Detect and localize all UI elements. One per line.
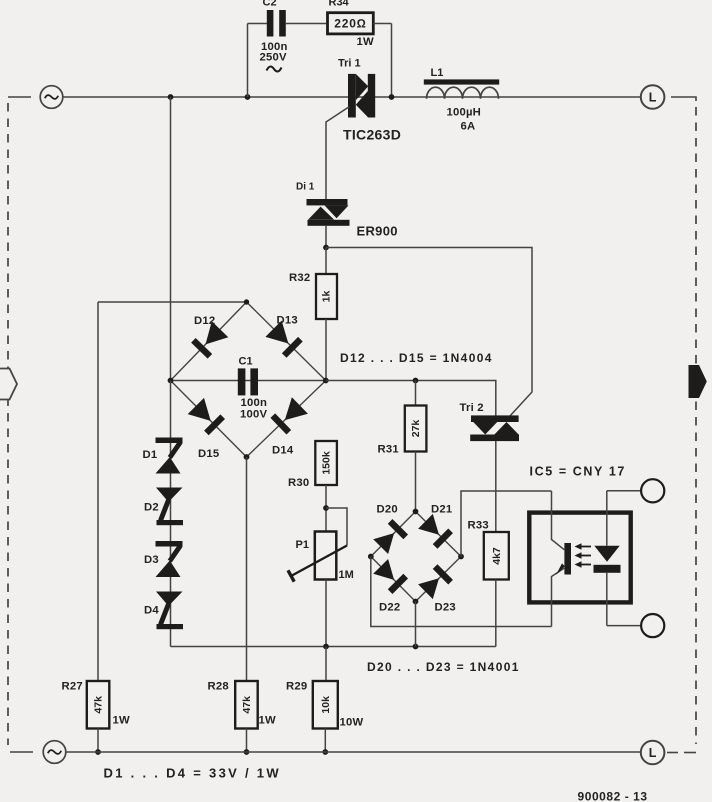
svg-text:D20 . . . D23 = 1N4001: D20 . . . D23 = 1N4001	[367, 660, 520, 674]
wire to dashed boundary	[671, 97, 696, 101]
diode D14	[273, 397, 308, 432]
terminal L bottom-right	[641, 741, 665, 765]
wire: top mains line	[64, 96, 642, 98]
zener diode D3	[156, 541, 183, 577]
svg-text:1W: 1W	[357, 36, 374, 48]
svg-text:220Ω: 220Ω	[334, 17, 366, 31]
svg-text:R28: R28	[208, 681, 229, 693]
svg-text:10k: 10k	[320, 696, 332, 714]
capacitor C2	[267, 10, 286, 37]
svg-text:TIC263D: TIC263D	[343, 127, 401, 143]
svg-text:D3: D3	[144, 554, 159, 566]
zener diode D1	[156, 438, 183, 474]
svg-text:R31: R31	[378, 444, 399, 456]
svg-text:250V: 250V	[260, 52, 287, 64]
svg-text:ER900: ER900	[357, 224, 398, 239]
diode D15	[188, 398, 223, 433]
triac Tri1	[348, 74, 375, 118]
svg-text:Tri 2: Tri 2	[460, 402, 484, 414]
wire: top node to R27 column	[98, 301, 247, 303]
svg-text:L: L	[649, 91, 657, 105]
wire: zener chain	[170, 381, 172, 647]
svg-text:R32: R32	[289, 272, 310, 284]
svg-text:100n: 100n	[241, 397, 268, 409]
diode D23	[418, 567, 451, 600]
svg-text:D13: D13	[277, 315, 298, 327]
svg-text:R33: R33	[468, 520, 489, 532]
light arrows	[575, 543, 592, 549]
svg-text:D12 . . . D15 = 1N4004: D12 . . . D15 = 1N4004	[340, 351, 493, 365]
wire: bridge2 bottom to rail	[415, 602, 417, 647]
wire: Di1 to gate node	[325, 226, 327, 248]
svg-text:10W: 10W	[340, 717, 364, 729]
wire: C2 branch drop	[245, 94, 251, 100]
resistor R27	[87, 681, 110, 729]
AC source terminal bottom-left	[10, 741, 66, 764]
svg-text:D1: D1	[143, 449, 158, 461]
resistor R33	[484, 532, 509, 580]
wire: mid rail	[171, 646, 496, 648]
zener diode D4	[156, 592, 183, 630]
potentiometer P1	[326, 508, 347, 546]
resistor R34	[328, 13, 374, 34]
phototransistor of IC5	[552, 491, 572, 627]
svg-text:D20: D20	[377, 504, 398, 516]
wire: bridge2 left to IC5 emitter line	[371, 557, 552, 627]
node dots bridge1	[244, 299, 249, 304]
wire IC5 LED to terminals	[607, 490, 641, 492]
capacitor C1	[238, 368, 258, 395]
svg-text:IC5 = CNY 17: IC5 = CNY 17	[530, 465, 626, 479]
svg-text:47k: 47k	[93, 696, 105, 714]
svg-text:D15: D15	[198, 448, 219, 460]
wire P1 to rail	[325, 580, 327, 647]
diode D13	[265, 321, 300, 356]
terminal circle top	[641, 479, 664, 502]
wire: C1 link	[171, 380, 326, 382]
wire: bottom rail	[66, 751, 641, 753]
svg-text:D14: D14	[272, 445, 294, 457]
svg-text:D2: D2	[144, 502, 159, 514]
svg-text:D12: D12	[194, 315, 215, 327]
LED of IC5	[594, 514, 621, 626]
svg-text:Di 1: Di 1	[296, 182, 315, 193]
diac Di1	[307, 199, 350, 226]
resistor R30	[315, 441, 337, 485]
svg-text:D21: D21	[431, 504, 452, 516]
wire: R34 to mains	[373, 23, 391, 25]
inductor L1	[424, 79, 499, 98]
svg-text:D23: D23	[435, 602, 456, 614]
wire R30 to P1 node	[325, 485, 327, 532]
svg-text:1W: 1W	[259, 715, 276, 727]
svg-text:100µH: 100µH	[447, 107, 482, 119]
resistor R28	[235, 681, 258, 729]
wire R29 column	[325, 647, 327, 682]
svg-text:L: L	[649, 746, 657, 760]
diode D20	[373, 521, 406, 554]
svg-text:R27: R27	[62, 681, 83, 693]
svg-text:L1: L1	[431, 67, 444, 79]
diode D22	[373, 559, 406, 592]
wire: bridge2 frame	[371, 512, 461, 602]
right dashed boundary	[695, 107, 697, 744]
wire: C2 to R34	[286, 23, 328, 25]
resistor R31	[415, 381, 417, 406]
wire: bridge2 right to IC5 collector line	[461, 491, 552, 557]
svg-text:1M: 1M	[339, 569, 354, 581]
optocoupler IC5 box	[529, 513, 630, 603]
phase flow arrow left (outline)	[0, 369, 17, 400]
svg-text:47k: 47k	[241, 696, 253, 714]
svg-text:C1: C1	[239, 356, 253, 368]
wire: gate node to Tri2 gate	[326, 248, 532, 417]
svg-text:C2: C2	[263, 0, 277, 9]
left dashed mains boundary	[7, 103, 9, 745]
svg-text:D4: D4	[144, 605, 159, 617]
diode D12	[193, 321, 228, 356]
resistor R32	[325, 248, 327, 275]
node dots bridge2	[413, 509, 419, 515]
svg-text:150k: 150k	[321, 451, 333, 475]
wire: right node to Tri2	[326, 381, 496, 416]
svg-text:R29: R29	[286, 681, 307, 693]
svg-text:D1 . . . D4 = 33V / 1W: D1 . . . D4 = 33V / 1W	[104, 766, 281, 781]
wire: junction to rectifier left node	[168, 94, 174, 100]
zener diode D2	[156, 488, 183, 526]
resistor R29	[313, 681, 338, 729]
svg-text:D22: D22	[379, 602, 400, 614]
AC source terminal top-left	[8, 86, 63, 109]
svg-text:4k7: 4k7	[491, 547, 503, 565]
svg-text:100V: 100V	[240, 409, 267, 421]
terminal L top-right	[641, 85, 665, 109]
svg-text:1k: 1k	[321, 291, 333, 303]
svg-text:P1: P1	[296, 539, 309, 551]
svg-text:27k: 27k	[410, 420, 422, 438]
wire R28 column	[246, 457, 248, 681]
svg-text:Tri 1: Tri 1	[338, 58, 361, 70]
diode D21	[418, 514, 451, 547]
wire: Tri1 gate	[326, 107, 350, 200]
svg-text:900082 - 13: 900082 - 13	[578, 790, 648, 802]
terminal circle bottom	[641, 614, 664, 637]
wire Tri2 to R33	[495, 441, 497, 532]
phase flow arrow right (solid)	[689, 365, 707, 398]
triac Tri2	[470, 415, 519, 441]
svg-text:R34: R34	[329, 0, 350, 9]
wire: circle to dashed	[667, 752, 678, 754]
svg-text:R30: R30	[288, 477, 309, 489]
svg-text:6A: 6A	[461, 121, 476, 133]
svg-text:1W: 1W	[113, 715, 130, 727]
wire: bridge1 frame	[171, 302, 326, 457]
